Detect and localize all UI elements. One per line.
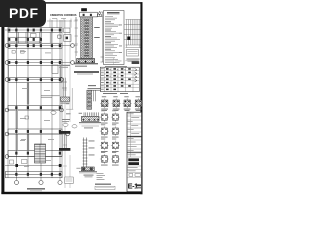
right vertical dimension line [101,12,105,62]
plan side walls [8,20,62,178]
stair hatch block [35,144,46,163]
PDF badge [0,0,46,27]
top dimension ticks [47,19,72,28]
left dimension ticks of wall detail [75,17,78,56]
sheet frame: bottom border [1,192,142,194]
detail 2-2 wall strip [88,89,102,91]
beam at top [80,12,98,17]
two small boxes row [129,174,133,177]
lower intermediate grid line [5,165,62,167]
right dimension strip of plan [63,17,78,188]
horizontal grid lines [5,29,62,31]
dowel bars row [84,112,98,116]
hatched wall strip [81,17,93,59]
oval label in plan [51,111,56,114]
bottom grid bubbles [14,180,62,184]
right grid bubbles [60,44,75,136]
north triangle marker [97,11,102,16]
chevron marks in right column [135,68,138,82]
plan lower-right dimension corner [66,88,73,109]
sheet frame: top border [3,2,143,3]
footing band row 1 [6,28,63,178]
small corte details between plan and column details [62,78,67,97]
T-detail right [88,89,102,102]
detail 2-2 footing [82,116,100,121]
detail caption [74,71,99,73]
small column rect near top right of plan [58,35,61,38]
slim column corte with footing [83,138,88,168]
small text specks in plan rooms [20,51,51,167]
bold project text [128,158,139,161]
detail 1-1 [62,119,70,120]
dimension text under detail [59,65,70,66]
bottom middle caption [95,184,111,185]
base lines [74,62,98,64]
right-edge footing outlines [64,28,70,33]
ladder wall segments between footing bands [9,32,61,150]
small box under key plan [127,50,139,57]
column blobs on grid intersections [8,29,61,176]
small notes block bottom-left of details [97,173,106,180]
black cap block [81,8,87,11]
wall footing [77,59,95,63]
sheet frame: right border [140,2,142,194]
left grid bubbles [5,44,9,159]
tiny column sections in table cells [106,68,131,90]
svg-text:CIMIENTOS CORRIDOS: CIMIENTOS CORRIDOS [50,13,77,17]
plan bottom label [27,188,45,190]
interior walls [27,83,59,105]
dark dividers in title block [127,136,142,137]
wall annotations (rebar text spine) [84,20,100,57]
sheet frame: left border [1,0,4,194]
slim column elevation left [63,78,65,97]
vertical grid lines [16,20,18,180]
bottom-left legend box [65,177,74,184]
small room outline top-left [31,34,37,38]
